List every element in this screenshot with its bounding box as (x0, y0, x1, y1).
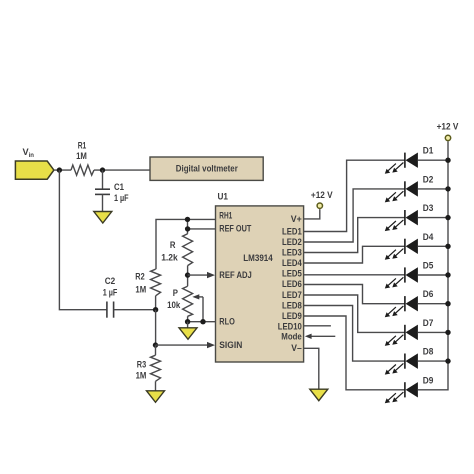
svg-text:LM3914: LM3914 (243, 252, 273, 263)
wire RLO (188, 321, 216, 323)
node junction Vin (57, 167, 62, 172)
svg-text:P: P (173, 288, 178, 298)
ground below V- (310, 389, 328, 401)
wire D4 anode (418, 245, 449, 247)
wire LED6 to D6 (304, 285, 405, 304)
node R2/C2 (153, 307, 158, 312)
svg-text:D4: D4 (423, 232, 434, 242)
wire LED5 to D5 (304, 274, 405, 276)
svg-text:1M: 1M (135, 284, 146, 294)
ground below R3 (147, 391, 165, 403)
svg-text:R3: R3 (137, 359, 146, 369)
potentiometer P (183, 286, 193, 316)
svg-text:R: R (170, 240, 176, 250)
LED D7 (385, 325, 418, 346)
node D1 rail (445, 158, 450, 163)
wire LED10 stub (304, 325, 331, 327)
svg-text:1M: 1M (136, 370, 147, 380)
wire REF OUT (188, 228, 216, 230)
supply terminal +12V (rail) (445, 135, 450, 140)
svg-text:SIGIN: SIGIN (219, 340, 242, 350)
svg-text:Mode: Mode (281, 332, 302, 342)
LED D4 (385, 239, 418, 260)
svg-text:V+: V+ (291, 214, 302, 224)
svg-text:LED5: LED5 (282, 269, 302, 279)
node D4 rail (445, 244, 450, 249)
supply terminal +12V (IC) (317, 203, 322, 208)
wire Mode arrow (310, 335, 336, 337)
node REF ADJ (185, 272, 190, 277)
wire V+ (304, 209, 320, 219)
svg-text:C1: C1 (114, 182, 124, 192)
resistor R3 (155, 345, 157, 355)
LED D5 (385, 267, 418, 288)
wire LED7 to D7 (304, 295, 405, 332)
LED D3 (385, 210, 418, 231)
svg-text:C2: C2 (105, 276, 116, 286)
node D2 rail (445, 186, 450, 191)
LED D2 (385, 181, 418, 202)
wire D1 anode (418, 159, 449, 161)
svg-text:1.2k: 1.2k (161, 252, 179, 262)
wire R3 to ground (155, 381, 157, 391)
input arrow Vin (15, 161, 54, 179)
wire C2 to R2 node (114, 309, 156, 311)
node REF OUT (185, 226, 190, 231)
wire P bottom to RLO (187, 316, 189, 321)
svg-text:Vin: Vin (23, 147, 35, 159)
resistor R 1.2k (183, 234, 193, 266)
svg-text:1 µF: 1 µF (114, 193, 129, 203)
op-amp U1 body (216, 206, 304, 362)
svg-text:D8: D8 (423, 347, 434, 357)
wire junction down to C1 (102, 170, 104, 189)
svg-text:D2: D2 (423, 174, 434, 184)
svg-text:R1: R1 (78, 140, 87, 150)
wire R to REF ADJ node (187, 266, 189, 287)
wire D7 anode (418, 331, 449, 333)
wire LED9 to D9 (304, 316, 405, 390)
wire D8 anode (418, 360, 449, 362)
svg-text:LED6: LED6 (282, 279, 302, 289)
wire D2 anode (418, 188, 449, 190)
wire LED1 to D1 (304, 160, 405, 231)
wire D3 anode (418, 217, 449, 219)
node P bottom (185, 319, 190, 324)
wire LED4 to D4 (304, 246, 405, 263)
svg-text:+12 V: +12 V (437, 121, 459, 131)
wire D9 anode to rail corner (418, 361, 449, 390)
wire SIGIN with arrow (156, 344, 212, 346)
wire C1 to ground (102, 194, 104, 211)
LED D6 (385, 296, 418, 317)
resistor R2 (151, 269, 161, 296)
svg-text:REF ADJ: REF ADJ (219, 270, 252, 280)
svg-text:D3: D3 (423, 203, 434, 213)
node wiper/RLO (200, 319, 205, 324)
wire LED2 to D2 (304, 189, 405, 242)
wire REF ADJ with arrow (188, 274, 211, 276)
wire down to SIGIN node (155, 310, 157, 345)
capacitor C2 (106, 302, 108, 318)
wire R1 to voltmeter (94, 169, 150, 171)
svg-text:LED1: LED1 (282, 227, 302, 237)
wire LED3 to D3 (304, 218, 405, 253)
svg-text:D7: D7 (423, 318, 434, 328)
svg-text:1 µF: 1 µF (103, 287, 118, 297)
svg-text:V–: V– (291, 343, 302, 353)
node junction C1 (100, 167, 105, 172)
node D7 rail (445, 330, 450, 335)
ground below RLO (179, 328, 197, 340)
node D6 rail (445, 301, 450, 306)
svg-text:LED2: LED2 (282, 237, 302, 247)
svg-text:LED8: LED8 (282, 300, 302, 310)
svg-text:D9: D9 (423, 375, 434, 385)
svg-text:+12 V: +12 V (311, 190, 333, 200)
svg-text:Digital voltmeter: Digital voltmeter (176, 163, 239, 173)
svg-text:D1: D1 (423, 146, 434, 156)
svg-text:LED4: LED4 (282, 258, 302, 268)
wire Vin node down (59, 170, 106, 310)
wire D5 anode (418, 274, 449, 276)
wiper arrow of P (202, 297, 204, 322)
svg-text:LED3: LED3 (282, 248, 302, 258)
svg-text:10k: 10k (167, 300, 181, 310)
LED D1 (385, 153, 418, 174)
ground below C1 (94, 212, 112, 224)
node D8 rail (445, 358, 450, 363)
wire RH1 node to REF OUT node (187, 219, 189, 233)
node D5 rail (445, 272, 450, 277)
svg-text:LED9: LED9 (282, 311, 302, 321)
node SIGIN/R3 (153, 342, 158, 347)
node D3 rail (445, 215, 450, 220)
svg-text:REF OUT: REF OUT (219, 224, 251, 234)
capacitor C1 (95, 188, 110, 190)
svg-text:R2: R2 (135, 271, 144, 281)
svg-text:LED7: LED7 (282, 290, 302, 300)
wire rail (447, 141, 449, 361)
svg-text:D6: D6 (423, 289, 434, 299)
LED D9 (385, 382, 418, 403)
svg-text:D5: D5 (423, 261, 434, 271)
svg-text:RH1: RH1 (219, 211, 232, 221)
svg-text:RLO: RLO (219, 317, 235, 327)
LED D8 (385, 354, 418, 375)
wire R2 to C2 node (155, 296, 157, 310)
wire LED8 to D8 (304, 306, 405, 362)
svg-text:LED10: LED10 (278, 322, 302, 332)
wire V- to ground (304, 348, 319, 389)
resistor R1 (71, 165, 94, 175)
wire arrow tip to R1 (54, 169, 71, 171)
node RH1 (185, 217, 190, 222)
wire RH1 (156, 219, 216, 269)
svg-text:1M: 1M (76, 151, 87, 161)
svg-text:U1: U1 (218, 192, 229, 202)
wire RLO to ground (187, 322, 189, 328)
wire D6 anode (418, 303, 449, 305)
